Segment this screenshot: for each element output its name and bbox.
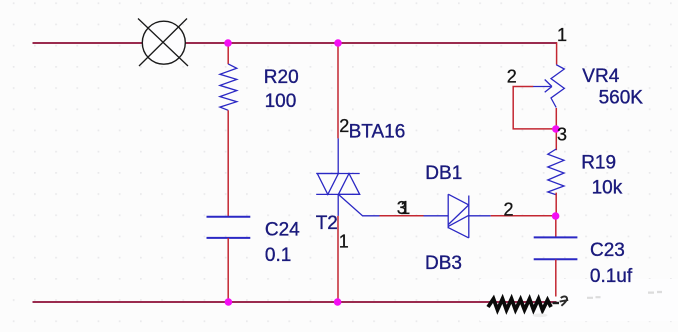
capacitor C23 [534,237,578,259]
wire: VR4 wiper loop to pin 3 [513,87,552,129]
label: 100 [265,91,297,112]
diac DB1 (DB3) [424,194,491,238]
wire: top bus corner to VR4 pin 1 [556,42,558,64]
wire: node 2 to C23 [555,216,557,238]
svg-text:3: 3 [557,125,567,145]
junction: C24 / bottom bus [225,298,233,306]
pin number: VR4 pin 1 [557,25,567,45]
wire: R20 top stub [227,43,229,64]
svg-text:100: 100 [265,91,297,112]
junction: node 2 (gate/R19/C23) [552,212,560,220]
svg-text:C23: C23 [590,240,625,261]
scribble (blacked-out watermark) [488,296,568,310]
svg-text:C24: C24 [265,219,300,240]
resistor R20 [220,64,237,110]
svg-text:BTA16: BTA16 [349,122,406,143]
svg-text:0.1uf: 0.1uf [590,266,633,287]
wire: T2 anode from top bus [337,43,339,138]
svg-text:R19: R19 [581,153,616,174]
pin number: T2 pin 2 [339,116,349,136]
svg-text:1: 1 [339,231,349,251]
junction: R20 / top bus [224,39,232,47]
label: DB1 [425,163,462,184]
wire: R19 to node 2 [555,193,557,217]
wire: T2 cathode to bottom bus [337,216,339,302]
svg-text:2: 2 [339,116,349,136]
lamp (circle with X) [138,19,188,67]
junction: T2 / bottom bus [334,298,342,306]
pin number: VR4 pin 3 [557,125,567,145]
svg-text:1: 1 [400,198,410,218]
pin number: T2 pin 1 [339,231,349,251]
wire: VR4 pin3 to R19 [555,108,557,150]
svg-text:10k: 10k [592,177,623,198]
wire: C24 to bottom bus [227,238,229,302]
capacitor C24 [207,217,251,238]
wire: C23 to bottom bus [555,260,557,297]
svg-text:VR4: VR4 [582,66,619,87]
label: VR4 [582,66,619,87]
svg-text:560K: 560K [599,88,644,109]
label: C23 [590,240,625,261]
svg-text:2: 2 [504,199,514,219]
label: 0.1 [265,245,291,266]
label: R19 [581,153,616,174]
pin number: DB1 pin 2 [504,199,514,219]
label: 0.1uf [590,266,633,287]
label: C24 [265,219,300,240]
wire: bottom bus net [33,301,557,303]
wire: R20 to C24 [227,110,229,217]
pin number: T2 pin 3 [397,198,407,218]
pin number: VR4 pin 2 [507,66,517,86]
label: DB3 [425,253,462,274]
label: 560K [599,88,644,109]
svg-text:DB1: DB1 [425,163,462,184]
wire: top bus net [33,42,558,44]
svg-text:2: 2 [507,66,517,86]
wire: T2 gate to DB1 [380,215,424,217]
resistor R19 [548,149,564,195]
potentiometer VR4 [533,65,564,108]
label: BTA16 [349,122,406,143]
svg-text:1: 1 [557,25,567,45]
label: T2 [316,213,338,234]
triac T2 (BTA16) [316,138,379,216]
watermark remnants (grey) [533,292,663,317]
wire: DB1 to node 2 [491,215,556,217]
junction: node 3 (VR4 wiper/R19) [552,125,560,133]
label: R20 [264,67,299,88]
svg-text:DB3: DB3 [425,253,462,274]
svg-text:T2: T2 [316,213,338,234]
pin number: DB1 pin 1 [400,198,410,218]
svg-text:0.1: 0.1 [265,245,291,266]
svg-text:R20: R20 [264,67,299,88]
junction: T2 / top bus [334,39,342,47]
label: 10k [592,177,623,198]
